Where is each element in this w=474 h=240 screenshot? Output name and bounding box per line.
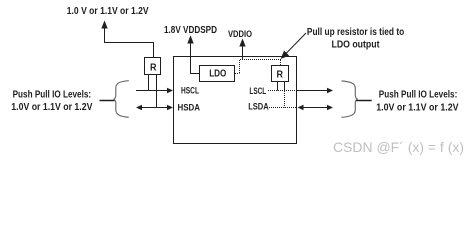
svg-text:VDDIO: VDDIO <box>228 29 252 39</box>
HSCL arrowhead into chip <box>167 88 173 94</box>
annotation leader line <box>286 33 306 54</box>
svg-text:LDO: LDO <box>209 69 226 80</box>
wire internal R toward LSDA (upper solid part) <box>284 82 286 91</box>
svg-text:1.0V or 1.1V or 1.2V: 1.0V or 1.1V or 1.2V <box>11 102 92 113</box>
LSDA wire (external) <box>301 107 328 109</box>
wire from supply arrow down and over to resistor R (external) <box>105 28 154 58</box>
svg-text:HSDA: HSDA <box>178 103 201 113</box>
dotted wire rail to internal resistor R <box>280 60 282 66</box>
VDDSPD supply arrowhead <box>187 35 193 43</box>
LSDA arrowhead right <box>327 105 333 111</box>
HSDA wire (external) <box>140 107 169 109</box>
LDO regulator box <box>200 66 235 82</box>
LSCL wire (external) <box>297 90 329 92</box>
svg-text:LSDA: LSDA <box>248 102 269 112</box>
svg-text:LDO output: LDO output <box>332 40 381 51</box>
svg-text:Push Pull IO Levels:: Push Pull IO Levels: <box>379 90 458 101</box>
arrowhead to 1.0V supply label <box>101 21 107 29</box>
wire VDDSPD down to LDO input <box>191 43 200 74</box>
svg-text:1.8V VDDSPD: 1.8V VDDSPD <box>164 25 217 36</box>
resistor R (external pull-up) <box>145 58 161 75</box>
wire internal R to LSCL <box>277 82 279 91</box>
dotted wire: LDO output to rail <box>235 60 240 74</box>
HSCL wire (external) <box>136 90 169 92</box>
dotted wire internal R to LSDA <box>284 91 286 108</box>
wire VDDIO down to internal rail <box>242 46 244 60</box>
dash from left label to brace <box>100 100 115 102</box>
svg-text:1.0 V or 1.1V or 1.2V: 1.0 V or 1.1V or 1.2V <box>67 6 149 17</box>
LSCL arrowhead right <box>327 88 333 94</box>
dotted LSDA wire (internal) <box>269 107 297 109</box>
svg-text:1.0V or 1.1V or 1.2V: 1.0V or 1.1V or 1.2V <box>376 103 459 114</box>
right curly brace <box>342 81 358 118</box>
svg-text:HSCL: HSCL <box>181 86 199 96</box>
svg-text:Pull up resistor is tied to: Pull up resistor is tied to <box>307 27 404 38</box>
chip boundary (SPD hub device) <box>174 57 297 144</box>
svg-text:R: R <box>150 63 157 74</box>
svg-text:R: R <box>277 70 284 81</box>
left curly brace <box>114 81 129 118</box>
resistor R (internal pull-up) <box>272 66 289 82</box>
dotted LSCL wire (internal) <box>268 90 297 92</box>
dotted LDO output rail <box>240 59 281 61</box>
wire R to HSCL <box>148 75 150 91</box>
svg-text:Push Pull IO Levels:: Push Pull IO Levels: <box>13 89 92 100</box>
HSDA arrowhead left (toward brace) <box>136 105 142 111</box>
VDDIO supply arrowhead <box>239 39 245 47</box>
HSDA arrowhead into chip <box>167 105 173 111</box>
wire R to HSDA <box>156 75 158 108</box>
dash from right brace to right label <box>356 100 372 102</box>
svg-text:CSDN @F´ (x) = f (x): CSDN @F´ (x) = f (x) <box>333 139 464 155</box>
LSDA arrowhead left into chip <box>298 105 304 111</box>
annotation arrowhead at rail <box>281 51 290 60</box>
svg-text:LSCL: LSCL <box>249 86 266 96</box>
